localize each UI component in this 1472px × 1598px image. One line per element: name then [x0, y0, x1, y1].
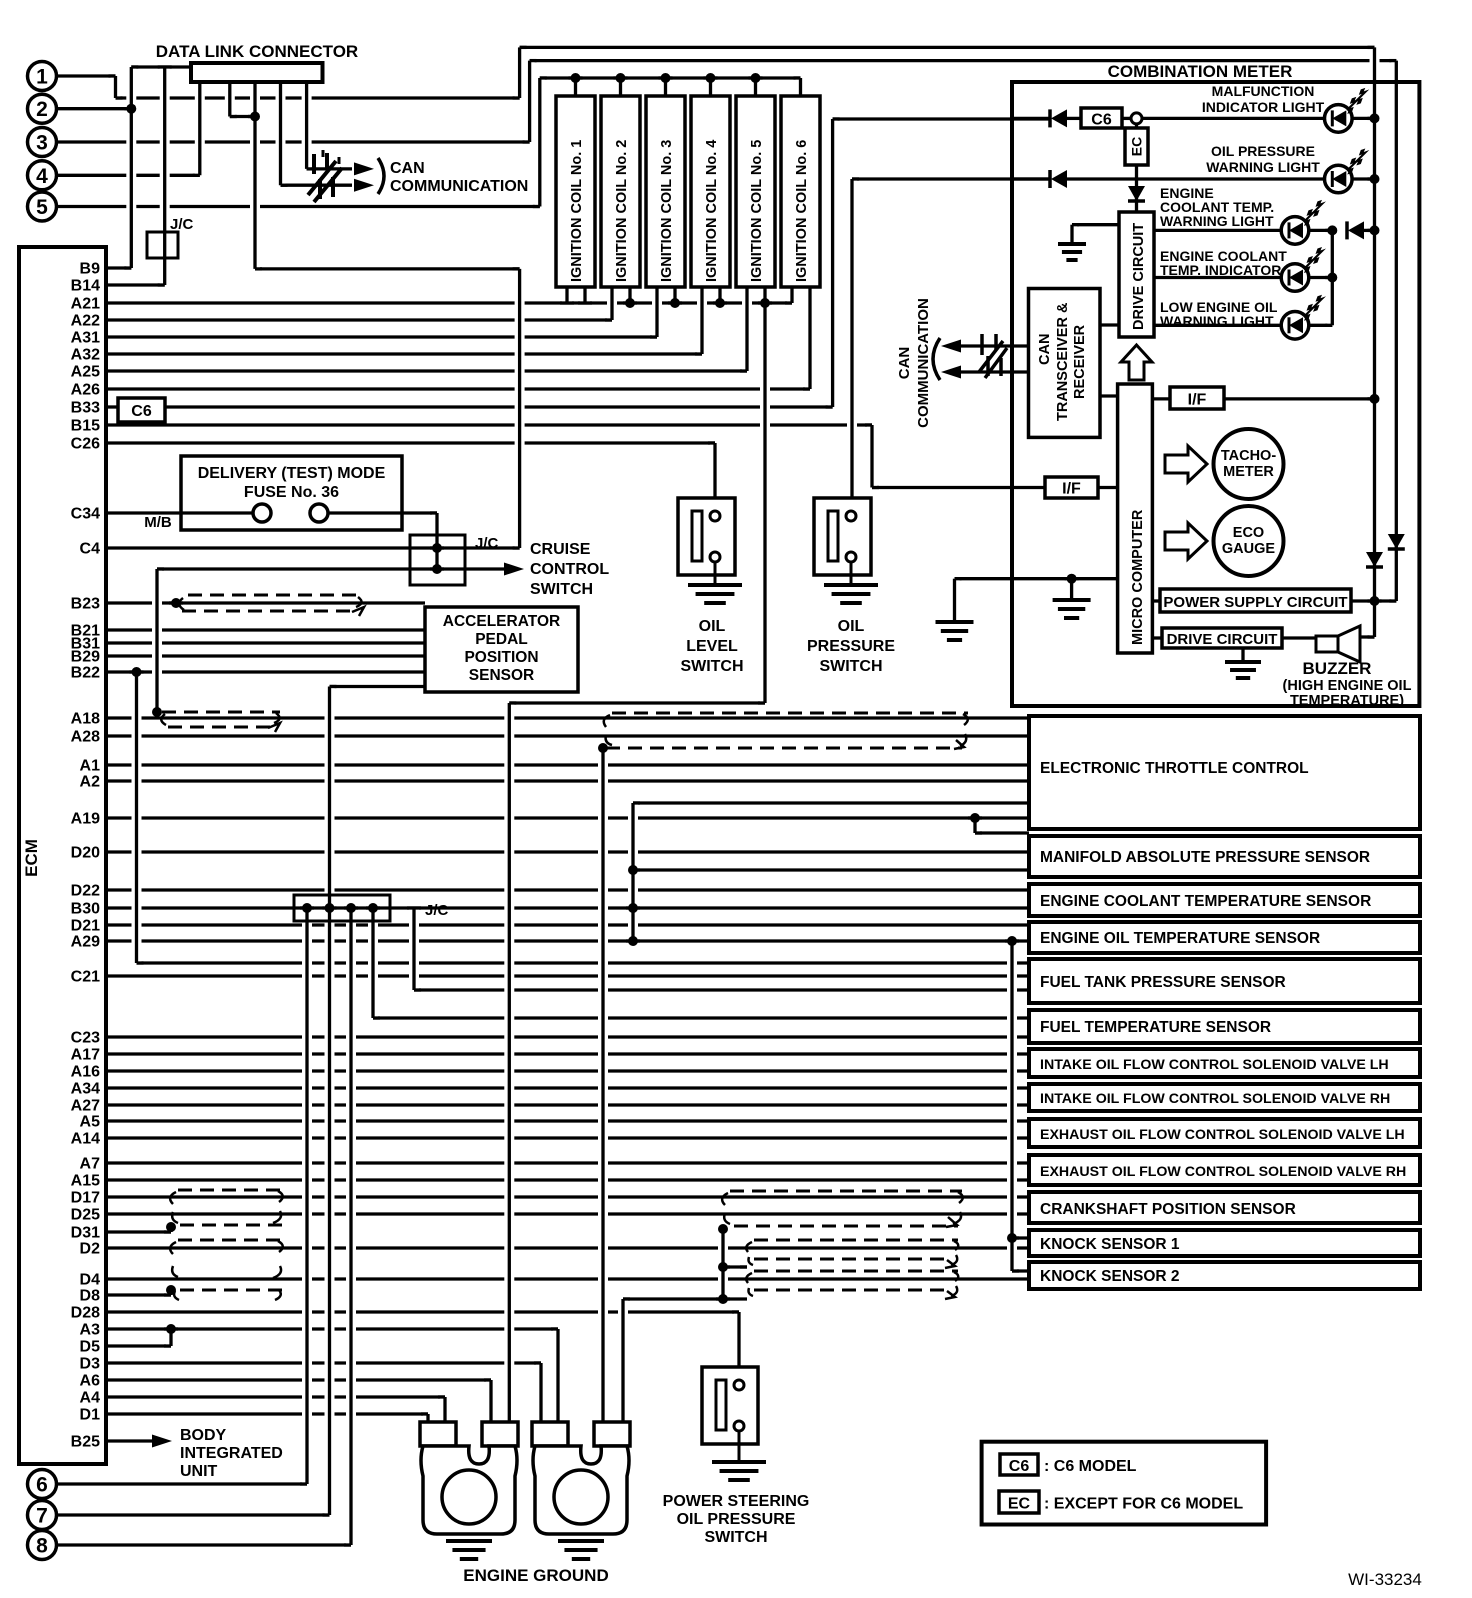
wire meter edge diode1	[1012, 117, 1050, 120]
svg-text:C6: C6	[131, 403, 152, 420]
LED oil pressure warning light	[1325, 165, 1353, 193]
svg-text:D3: D3	[80, 1356, 101, 1373]
wire ignition gnd run	[509, 701, 765, 704]
CAN transceiver and receiver box	[1029, 289, 1101, 438]
wire C26 to oil level switch	[713, 443, 716, 498]
svg-text:ACCELERATOR: ACCELERATOR	[443, 613, 560, 630]
svg-text:FUEL TEMPERATURE SENSOR: FUEL TEMPERATURE SENSOR	[1040, 1019, 1271, 1036]
wire riser to A18 shield	[155, 569, 158, 712]
wire bus1 to buzzer	[1373, 601, 1376, 637]
CAN twisted pair symbol right	[979, 334, 1007, 378]
drive circuit ground	[1058, 244, 1086, 260]
wire coil6 L pin	[790, 287, 793, 303]
svg-text:ENGINE COOLANT TEMPERATURE SEN: ENGINE COOLANT TEMPERATURE SENSOR	[1040, 893, 1371, 910]
INTAKE OIL FLOW CONTROL SOLENOID VALVE LH box	[1029, 1049, 1420, 1077]
wire circle8 row	[57, 1543, 351, 1546]
wire C4 row	[106, 546, 520, 549]
wire A27 row	[106, 1103, 1029, 1106]
wire coil3 top pin	[664, 78, 667, 96]
wire diode3 to bus	[1362, 229, 1375, 232]
diode on bus2	[1388, 534, 1405, 549]
svg-text:OIL PRESSURE: OIL PRESSURE	[1211, 143, 1315, 159]
ENGINE OIL TEMPERATURE SENSOR box	[1029, 922, 1420, 953]
wire cruise arrow line	[410, 567, 510, 570]
svg-text:COMBINATION METER: COMBINATION METER	[1108, 62, 1293, 81]
node ref circle 1	[28, 62, 57, 91]
svg-text:7: 7	[36, 1505, 48, 1528]
wire A19 row	[106, 816, 1029, 819]
svg-text:8: 8	[36, 1535, 48, 1558]
svg-text:6: 6	[36, 1474, 48, 1497]
wire CAN arrow1 line	[307, 167, 352, 170]
wire CANTR to DC	[1100, 323, 1119, 326]
wire knock shield gnd run	[623, 1297, 723, 1300]
arrow to body integrated unit	[152, 1435, 172, 1448]
wire A4 gnd drop	[443, 1397, 446, 1424]
node ref circle 4	[28, 161, 57, 190]
svg-text:B14: B14	[71, 278, 100, 295]
svg-text:A3: A3	[80, 1322, 101, 1339]
wire coil1 L pin	[565, 287, 568, 303]
wire A29 row	[106, 939, 1029, 942]
buzzer speaker	[1316, 636, 1338, 652]
svg-text:A32: A32	[71, 347, 100, 364]
svg-text:D2: D2	[80, 1241, 101, 1258]
svg-text:C23: C23	[71, 1030, 100, 1047]
node ref circle 6	[28, 1470, 57, 1499]
EXHAUST OIL FLOW CONTROL SOLENOID VALVE LH box	[1029, 1119, 1420, 1147]
wire circle1 long row	[116, 96, 520, 99]
svg-text:SWITCH: SWITCH	[819, 658, 882, 675]
combination meter box	[1012, 82, 1419, 706]
wire coil2 L pin	[610, 287, 613, 320]
wire circle1 riser	[518, 47, 521, 98]
wire DC to LED3	[1154, 229, 1282, 232]
svg-text:BODY: BODY	[180, 1427, 227, 1444]
C6 tag box at MIL	[1081, 108, 1122, 128]
wire to fuel temp sensor	[373, 1016, 1029, 1019]
ignition coil No. 5 box	[736, 96, 775, 287]
interface box I/F 1	[1170, 387, 1224, 409]
wire circle4 row	[57, 174, 200, 177]
svg-text:DRIVE CIRCUIT: DRIVE CIRCUIT	[1167, 631, 1278, 648]
wire A6 gnd drop	[489, 1380, 492, 1424]
wire A31 row	[106, 335, 657, 338]
svg-text:METER: METER	[1223, 464, 1274, 480]
delivery test mode fuse box	[181, 456, 402, 530]
cruise control arrow	[504, 563, 524, 576]
shielded loop knock2 right	[754, 1271, 958, 1290]
node ref circle 3	[28, 128, 57, 157]
wire circle3 row	[57, 140, 530, 143]
KNOCK SENSOR 1 box	[1029, 1230, 1420, 1256]
hollow up arrow	[1121, 345, 1152, 380]
svg-text:OIL: OIL	[699, 618, 726, 635]
wire A14 row	[106, 1136, 1029, 1139]
svg-text:B30: B30	[71, 901, 100, 918]
svg-text:A28: A28	[71, 729, 100, 746]
wire B14 riser	[163, 67, 166, 285]
svg-text:WARNING LIGHT: WARNING LIGHT	[1160, 213, 1274, 229]
wire A22 row	[106, 318, 612, 321]
wire coil6 R pin	[808, 287, 811, 389]
KNOCK SENSOR 2 box	[1029, 1262, 1420, 1289]
interface box I/F 2	[1045, 477, 1098, 498]
svg-text:M/B: M/B	[144, 514, 172, 531]
svg-text:POWER STEERING: POWER STEERING	[663, 1493, 810, 1510]
wire LED4 to dot	[1309, 276, 1333, 279]
wire A1 row	[106, 763, 1029, 766]
svg-text:MICRO COMPUTER: MICRO COMPUTER	[1130, 509, 1146, 645]
wire C34 row	[106, 511, 253, 514]
wire D31 shield stub	[169, 1227, 172, 1232]
svg-text:D4: D4	[80, 1272, 101, 1289]
svg-text:COMMUNICATION: COMMUNICATION	[390, 178, 528, 195]
wire DC2 gnd stem	[1241, 648, 1244, 662]
wire B23 row	[106, 601, 425, 604]
svg-text:D8: D8	[80, 1288, 101, 1305]
svg-text:IGNITION COIL No. 5: IGNITION COIL No. 5	[749, 140, 765, 282]
wire DLC pin jog h	[230, 115, 255, 118]
CAN arrow 1	[354, 162, 374, 175]
svg-text:CRANKSHAFT POSITION SENSOR: CRANKSHAFT POSITION SENSOR	[1040, 1201, 1296, 1218]
wire DLC-C4 riser	[518, 269, 521, 548]
svg-text:PEDAL: PEDAL	[475, 631, 528, 648]
wire D21 row	[106, 923, 1029, 926]
diode on bus1	[1366, 552, 1383, 567]
wire coil5 R pin long	[763, 287, 766, 703]
LED engine coolant temp indicator	[1281, 264, 1309, 292]
CAN bracket left	[933, 338, 940, 380]
wire B15 row	[106, 423, 872, 426]
wire B31 row	[106, 641, 425, 644]
ignition coil No. 4 box	[691, 96, 730, 287]
junction connector J/C (cruise)	[410, 535, 465, 585]
wire IF1 to bus	[1224, 397, 1375, 400]
node ref circle 8	[28, 1531, 57, 1560]
wire D4 row	[106, 1277, 1029, 1280]
meter ground 1	[936, 622, 974, 640]
svg-text:B23: B23	[71, 596, 100, 613]
svg-text:PRESSURE: PRESSURE	[807, 638, 895, 655]
wire D5 row	[106, 1344, 171, 1347]
svg-text:CONTROL: CONTROL	[530, 561, 609, 578]
svg-text:POWER SUPPLY CIRCUIT: POWER SUPPLY CIRCUIT	[1163, 594, 1347, 611]
svg-text:INDICATOR LIGHT: INDICATOR LIGHT	[1202, 99, 1325, 115]
svg-text:A16: A16	[71, 1064, 100, 1081]
wire A3 row	[106, 1327, 558, 1330]
wire DC to LED4	[1154, 276, 1282, 279]
junction repairs and dots	[109, 74, 116, 77]
svg-text:1: 1	[36, 66, 48, 89]
wire shield to KS1	[1012, 1236, 1029, 1239]
svg-text:A1: A1	[80, 758, 101, 775]
EXHAUST OIL FLOW CONTROL SOLENOID VALVE RH box	[1029, 1155, 1420, 1185]
INTAKE OIL FLOW CONTROL SOLENOID VALVE RH box	[1029, 1084, 1420, 1111]
wire fuse to J/C	[435, 513, 438, 569]
shielded loop D17/D25 left	[178, 1190, 282, 1225]
ignition coil No. 1 box	[556, 96, 595, 287]
wire coil2 top pin	[619, 78, 622, 96]
svg-text:D22: D22	[71, 883, 100, 900]
CAN arrows to transceiver	[941, 340, 961, 353]
svg-text:TEMPERATURE): TEMPERATURE)	[1290, 693, 1404, 709]
svg-text:J/C: J/C	[475, 535, 499, 552]
svg-text:A21: A21	[71, 296, 100, 313]
C6 model tag box	[118, 398, 165, 422]
svg-text:DELIVERY (TEST) MODE: DELIVERY (TEST) MODE	[198, 465, 386, 482]
ENGINE COOLANT TEMPERATURE SENSOR box	[1029, 884, 1420, 916]
wire MC to IF1	[1152, 397, 1170, 400]
svg-text:D5: D5	[80, 1339, 101, 1356]
eco gauge circle	[1214, 506, 1284, 576]
open node circle	[1131, 113, 1142, 124]
wire A4 row	[106, 1395, 445, 1398]
svg-text:A25: A25	[71, 364, 100, 381]
wire LED3 to dot	[1309, 229, 1333, 232]
node ref circle 2	[28, 94, 57, 123]
wire top line A	[520, 46, 1375, 49]
wire coil4 L pin	[700, 287, 703, 354]
wire DC gnd stem	[1070, 225, 1073, 244]
legend C6 box	[1000, 1454, 1038, 1475]
wire B30 row	[106, 906, 1029, 909]
CAN arrow 2	[354, 179, 374, 192]
wire A34 row	[106, 1086, 1029, 1089]
drive circuit box 1	[1119, 212, 1154, 337]
fuse terminal circles	[253, 504, 271, 522]
svg-text:IGNITION COIL No. 3: IGNITION COIL No. 3	[659, 140, 675, 282]
svg-text:IGNITION COIL No. 6: IGNITION COIL No. 6	[794, 140, 810, 282]
svg-text:A4: A4	[80, 1390, 101, 1407]
oil level switch ground	[688, 585, 742, 603]
wire sensor gnd riser	[328, 687, 331, 1516]
wire coil1 R pin	[583, 287, 586, 303]
svg-text:FUEL TANK PRESSURE SENSOR: FUEL TANK PRESSURE SENSOR	[1040, 974, 1286, 991]
svg-text:ECO: ECO	[1233, 525, 1264, 541]
svg-text:3: 3	[36, 132, 48, 155]
wire knock shield bus	[721, 1229, 724, 1299]
wire D25 row	[106, 1212, 1029, 1215]
svg-text:MANIFOLD ABSOLUTE PRESSURE SEN: MANIFOLD ABSOLUTE PRESSURE SENSOR	[1040, 849, 1370, 866]
wire diode1 to C6	[1067, 117, 1081, 120]
wire B9 row	[106, 266, 131, 269]
wire coil3 R pin	[673, 287, 676, 303]
wire B22 riser	[135, 672, 138, 963]
EC tag box	[1135, 124, 1138, 130]
svg-text:B9: B9	[80, 261, 101, 278]
wire circle2 row	[57, 107, 131, 110]
svg-text:: EXCEPT FOR C6 MODEL: : EXCEPT FOR C6 MODEL	[1044, 1496, 1243, 1513]
svg-text:C34: C34	[71, 506, 100, 523]
diode at coolant warning row	[1345, 221, 1349, 239]
svg-text:SENSOR: SENSOR	[469, 667, 534, 684]
wire B9 to DLC	[131, 65, 191, 68]
wire DC gnd line	[1072, 223, 1119, 226]
wire to PS switch	[737, 1312, 740, 1371]
svg-text:DATA LINK CONNECTOR: DATA LINK CONNECTOR	[156, 42, 358, 61]
wire bus1	[1373, 47, 1376, 601]
wire C21 row	[106, 974, 1029, 977]
wire B29 row	[106, 654, 425, 657]
svg-text:C4: C4	[80, 541, 101, 558]
wire B22 row	[106, 670, 425, 673]
svg-text:J/C: J/C	[170, 216, 194, 233]
LED engine coolant temp warning	[1281, 217, 1309, 245]
wire riser to circle8	[349, 908, 352, 1545]
wire coil4 R pin	[718, 287, 721, 303]
svg-text:TEMP. INDICATOR: TEMP. INDICATOR	[1160, 262, 1281, 278]
svg-text:SWITCH: SWITCH	[530, 581, 593, 598]
wire B9 extension	[255, 267, 520, 270]
wire D8 row	[106, 1293, 171, 1296]
CAN twisted pair symbol left	[308, 150, 342, 202]
svg-text:BUZZER: BUZZER	[1303, 659, 1372, 678]
wire gnd2 stem	[1070, 579, 1073, 600]
wire circle5 row	[57, 205, 540, 208]
wire circle6 row	[57, 1482, 307, 1485]
svg-text:FUSE No. 36: FUSE No. 36	[244, 484, 339, 501]
wire gnd branch to MAP	[633, 868, 1029, 871]
svg-text:ELECTRONIC THROTTLE CONTROL: ELECTRONIC THROTTLE CONTROL	[1040, 760, 1309, 777]
svg-text:CAN: CAN	[390, 160, 425, 177]
svg-text:C26: C26	[71, 436, 100, 453]
power steering oil pressure switch	[702, 1367, 758, 1444]
svg-text:TACHO-: TACHO-	[1221, 448, 1276, 464]
svg-text:DRIVE CIRCUIT: DRIVE CIRCUIT	[1131, 223, 1147, 330]
wire shield to KS2	[1012, 1269, 1029, 1272]
svg-text:I/F: I/F	[1188, 392, 1207, 409]
wire A26 row	[106, 387, 810, 390]
wire A18 row	[106, 716, 1029, 719]
svg-text:SWITCH: SWITCH	[680, 658, 743, 675]
wire coil5 top pin	[754, 78, 757, 96]
wire B9 riser	[130, 67, 133, 268]
wire A28 row	[106, 734, 1029, 737]
wire coil3 L pin	[655, 287, 658, 337]
svg-text:D17: D17	[71, 1190, 100, 1207]
wire circle1 row	[57, 74, 116, 77]
wire B33 riser	[831, 119, 834, 407]
MANIFOLD ABSOLUTE PRESSURE SENSOR box	[1029, 836, 1420, 877]
wire circle7 row	[57, 1513, 330, 1516]
wire DLC pin CAN-L	[279, 82, 282, 185]
micro computer box	[1118, 384, 1153, 653]
svg-text:IGNITION COIL No. 2: IGNITION COIL No. 2	[614, 140, 630, 282]
drive circuit 2 ground	[1225, 662, 1261, 678]
svg-text:OIL PRESSURE: OIL PRESSURE	[677, 1511, 796, 1528]
svg-text:CAN: CAN	[896, 347, 913, 380]
FUEL TANK PRESSURE SENSOR box	[1029, 959, 1420, 1003]
wire D8 shield stub	[169, 1290, 172, 1295]
wire JC cruise left	[157, 567, 410, 570]
junction connector J/C (B14)	[147, 232, 178, 258]
wire A17 row	[106, 1052, 1029, 1055]
wire D22 row	[106, 888, 1029, 891]
wire D20 row	[106, 850, 1029, 853]
wire DLC pin CAN-H	[305, 82, 308, 169]
tachometer circle	[1214, 429, 1284, 499]
wire B25 row	[106, 1439, 152, 1442]
svg-text:4: 4	[36, 165, 48, 188]
svg-text:IGNITION COIL No. 4: IGNITION COIL No. 4	[704, 140, 720, 282]
svg-text:EXHAUST OIL FLOW CONTROL SOLEN: EXHAUST OIL FLOW CONTROL SOLENOID VALVE …	[1040, 1164, 1406, 1180]
wire B33 row	[165, 405, 833, 408]
data link connector box	[191, 63, 323, 82]
svg-text:D20: D20	[71, 845, 100, 862]
svg-text:A19: A19	[71, 811, 100, 828]
wire knock shield riser	[1010, 941, 1013, 1271]
wire MC gnd line	[955, 577, 1118, 580]
svg-text:CAN: CAN	[1037, 334, 1053, 365]
svg-text:EC: EC	[1008, 1496, 1031, 1513]
wire diode2 to LED2	[1067, 177, 1325, 180]
engine ground unit 2	[532, 1422, 568, 1446]
wire LED2 to bus	[1352, 177, 1375, 180]
svg-text:ENGINE GROUND: ENGINE GROUND	[463, 1566, 608, 1585]
wire to FTPS 3	[414, 988, 1029, 991]
svg-text:TRANSCEIVER &: TRANSCEIVER &	[1055, 302, 1071, 421]
power steering switch ground	[712, 1462, 766, 1480]
engine ground 2 symbol	[558, 1541, 604, 1559]
svg-text:A31: A31	[71, 330, 100, 347]
svg-text:B25: B25	[71, 1434, 100, 1451]
wire node to LED1	[1142, 117, 1325, 120]
wire B33 to C6 box	[106, 405, 118, 408]
wire A15 row	[106, 1178, 1029, 1181]
svg-text:MALFUNCTION: MALFUNCTION	[1212, 83, 1315, 99]
svg-text:COMMUNICATION: COMMUNICATION	[915, 298, 932, 428]
wire shield KS1 link	[723, 1265, 747, 1268]
wire bus2	[1395, 61, 1398, 601]
wire A32 row	[106, 352, 702, 355]
wire D5 to A3	[169, 1329, 172, 1346]
CRANKSHAFT POSITION SENSOR box	[1029, 1192, 1420, 1223]
svg-text:ENGINE OIL TEMPERATURE SENSOR: ENGINE OIL TEMPERATURE SENSOR	[1040, 930, 1320, 947]
wire C23 row	[106, 1035, 1029, 1038]
svg-text:EXHAUST OIL FLOW CONTROL SOLEN: EXHAUST OIL FLOW CONTROL SOLENOID VALVE …	[1040, 1127, 1405, 1143]
wire DLC pin to circle4	[198, 82, 201, 175]
svg-text:D31: D31	[71, 1225, 100, 1242]
hollow right arrow tacho	[1165, 446, 1207, 482]
wire circle3 riser	[528, 61, 531, 142]
ignition coil No. 2 box	[601, 96, 640, 287]
svg-text:CRUISE: CRUISE	[530, 541, 591, 558]
wire LED1 to bus	[1352, 117, 1375, 120]
wire B15 to I/F	[872, 486, 1045, 489]
wire coil5 L pin	[745, 287, 748, 371]
wire A2 row	[106, 779, 1029, 782]
wire CAN arrow2 line	[281, 184, 353, 187]
wire shield KS2 link	[723, 1297, 747, 1300]
wire PSC to bus	[1351, 599, 1396, 602]
wire gnd riser 633	[631, 803, 634, 941]
wire LED group bus	[1331, 230, 1334, 325]
oil level switch symbol	[678, 498, 735, 575]
svg-text:A27: A27	[71, 1098, 100, 1115]
wire B14 row	[106, 283, 165, 286]
wire C26 row	[106, 441, 715, 444]
shielded twisted pair loop at B23	[182, 595, 362, 611]
svg-text:OIL: OIL	[838, 618, 865, 635]
svg-text:A6: A6	[80, 1373, 101, 1390]
svg-text:C21: C21	[71, 969, 100, 986]
wire DC2 to buzzer	[1282, 636, 1316, 639]
wire C6 to node	[1122, 117, 1131, 120]
wire JC dot4 branch	[371, 908, 374, 1018]
svg-text:A26: A26	[71, 382, 100, 399]
wire oil pressure row	[852, 177, 1050, 180]
